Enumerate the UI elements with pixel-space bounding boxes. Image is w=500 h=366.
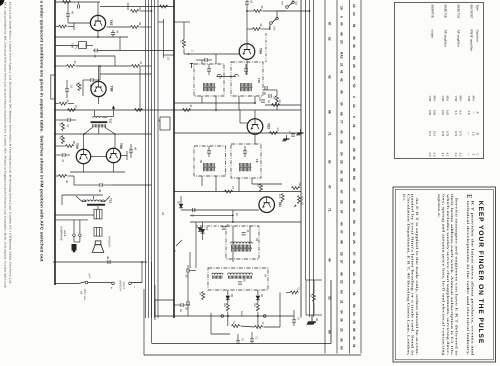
svg-text:92: 92	[328, 160, 332, 164]
resistor 72	[290, 291, 298, 294]
resistor 31c	[135, 109, 143, 112]
wire y90 right	[263, 89, 277, 91]
speaker driver block	[94, 228, 102, 237]
junction riser y66	[99, 65, 101, 67]
wire T89 base stub	[121, 155, 127, 157]
svg-text:14: 14	[352, 12, 356, 16]
svg-text:EC1.: EC1.	[402, 194, 406, 201]
wire T84 emitter	[246, 59, 248, 64]
svg-text:72: 72	[297, 287, 300, 290]
wire y222	[190, 221, 301, 223]
svg-text:12: 12	[352, 4, 356, 8]
svg-text:48: 48	[98, 189, 102, 193]
capacitor 47b	[62, 153, 64, 157]
wire y105	[265, 104, 301, 106]
resistor 30	[254, 10, 262, 13]
svg-text:19: 19	[205, 227, 209, 231]
svg-text:65: 65	[340, 140, 344, 144]
capacitor 45	[94, 49, 96, 53]
wire T84 collector	[246, 9, 248, 44]
svg-text:50: 50	[340, 346, 344, 350]
capacitor 59	[268, 94, 270, 98]
svg-text:11: 11	[246, 230, 250, 233]
svg-text:24: 24	[276, 128, 280, 132]
IF right border	[300, 0, 302, 318]
svg-text:(A/sia) Ltd; South Africa: Cen: (A/sia) Ltd; South Africa: Central News …	[9, 2, 12, 284]
junction frame y134	[54, 133, 56, 135]
wire T87 base	[68, 22, 90, 24]
svg-text:4.2: 4.2	[441, 153, 445, 157]
svg-text:59: 59	[267, 100, 270, 103]
svg-text:75: 75	[241, 338, 244, 341]
svg-text:42: 42	[340, 78, 344, 82]
junction rail y133	[300, 132, 302, 134]
capacitor 58a	[204, 58, 206, 62]
capacitor 16	[65, 88, 69, 90]
svg-text:24: 24	[352, 232, 356, 236]
svg-text:34: 34	[310, 294, 313, 297]
svg-text:46: 46	[352, 44, 356, 48]
bus line 5	[157, 0, 159, 318]
wire right block	[305, 280, 307, 315]
diode 20	[179, 204, 183, 208]
svg-text:71: 71	[328, 132, 332, 136]
svg-text:91: 91	[352, 24, 356, 28]
svg-text:—: —	[467, 152, 471, 157]
IFT T8 trimmer	[243, 150, 247, 152]
resistor 34r	[313, 294, 316, 302]
svg-text:38: 38	[340, 178, 344, 182]
svg-text:52: 52	[352, 84, 356, 88]
svg-text:71: 71	[255, 336, 258, 339]
svg-text:BSB175E: BSB175E	[444, 5, 448, 18]
svg-text:0.6: 0.6	[454, 111, 458, 115]
svg-text:40: 40	[71, 11, 75, 15]
IFT box T9	[194, 64, 224, 96]
wire y191	[174, 191, 301, 193]
col line 2	[336, 0, 338, 354]
capacitor 48b	[99, 183, 101, 187]
svg-text:63: 63	[340, 290, 344, 294]
IFT box T10	[231, 62, 263, 96]
wire S1a	[263, 10, 286, 12]
earphone plug	[72, 244, 77, 251]
svg-text:46: 46	[134, 147, 138, 151]
svg-text:—: —	[467, 131, 471, 136]
IFT T9 core	[203, 86, 216, 88]
svg-text:58: 58	[352, 176, 356, 180]
IFT T7 winding lower	[203, 168, 205, 171]
capacitor 43	[90, 78, 92, 82]
wire jack leads	[74, 241, 80, 243]
svg-text:tory, spring and autumn price: tory, spring and autumn price lists, hi-…	[442, 194, 446, 356]
svg-text:26: 26	[157, 119, 160, 122]
col line 1	[324, 0, 326, 354]
svg-text:31: 31	[340, 300, 344, 304]
svg-text:VHF: VHF	[441, 96, 445, 102]
capacitor 75	[236, 340, 240, 342]
svg-text:EARPHONE: EARPHONE	[60, 227, 63, 241]
svg-text:43: 43	[352, 136, 356, 140]
svg-text:34: 34	[199, 292, 202, 295]
paper corner mark	[0, 0, 5, 6]
ground near rail	[286, 135, 288, 139]
IFT T10 core	[240, 86, 253, 88]
wire T11 leads	[84, 127, 92, 134]
junction T87 emitter	[97, 36, 99, 38]
IFT T8 core	[239, 166, 252, 168]
svg-text:0.79: 0.79	[441, 131, 445, 137]
svg-text:FM IF amplifier: FM IF amplifier	[470, 30, 474, 53]
diode 65	[226, 296, 230, 300]
resistor 28b	[292, 187, 300, 190]
svg-text:6: 6	[340, 16, 344, 18]
svg-text:51: 51	[59, 123, 63, 127]
svg-text:26: 26	[352, 64, 356, 68]
svg-text:18C: 18C	[258, 97, 261, 102]
capacitor 71	[250, 338, 254, 340]
svg-text:S1d: S1d	[295, 1, 298, 6]
junction T84 collector	[246, 10, 248, 12]
wire x120 link	[119, 37, 121, 51]
transistor T89	[106, 148, 120, 162]
svg-text:JACK: JACK	[63, 230, 66, 237]
svg-text:0.06: 0.06	[428, 110, 432, 116]
svg-text:42: 42	[328, 75, 332, 79]
svg-text:−: −	[133, 286, 137, 288]
svg-text:24: 24	[340, 152, 344, 156]
wire T84 base	[184, 53, 240, 55]
wire T87 emitter	[97, 31, 99, 37]
IFT T8 winding upper	[239, 163, 241, 166]
svg-text:T89: T89	[119, 143, 123, 149]
wire y195	[62, 194, 103, 196]
svg-text:36: 36	[352, 36, 356, 40]
resistor 34L	[202, 292, 205, 300]
driver transformer T11 secondary	[92, 124, 94, 127]
battery plus terminal	[112, 282, 115, 285]
svg-text:46: 46	[340, 272, 344, 276]
wire 37 to bus	[140, 10, 152, 12]
transistor T83	[247, 119, 263, 135]
svg-text:0.65: 0.65	[441, 110, 445, 116]
col line 4	[360, 0, 362, 354]
svg-text:62: 62	[328, 37, 332, 41]
junction frame/emitter wire	[54, 36, 56, 38]
wire emitters	[83, 164, 85, 172]
svg-text:3.2: 3.2	[454, 153, 458, 157]
wire feeder	[163, 19, 165, 58]
wire y22	[174, 21, 190, 23]
driver transformer T11 core	[91, 121, 108, 123]
supply rail A	[305, 0, 307, 280]
svg-text:39: 39	[138, 22, 142, 26]
svg-text:BSB475E: BSB475E	[431, 5, 435, 18]
speaker symbol	[95, 241, 101, 245]
junction IF border y110	[173, 109, 175, 111]
wire: top stub	[127, 3, 129, 11]
junction frame y66	[54, 65, 56, 67]
svg-text:21: 21	[167, 57, 171, 61]
svg-text:12: 12	[288, 131, 291, 134]
capacitor 56	[180, 303, 182, 307]
svg-text:44: 44	[352, 208, 356, 212]
svg-text:95: 95	[352, 328, 356, 332]
svg-text:2: 2	[352, 96, 356, 98]
wire jack link	[55, 214, 94, 216]
tuning gang link	[221, 315, 224, 318]
resistor 76	[232, 325, 240, 328]
svg-text:31: 31	[189, 105, 193, 109]
svg-text:70: 70	[297, 317, 300, 320]
svg-text:55: 55	[199, 160, 203, 164]
svg-text:AF amplifier: AF amplifier	[457, 30, 461, 48]
supply rail B	[309, 0, 311, 317]
svg-text:25: 25	[352, 240, 356, 244]
svg-text:31: 31	[352, 344, 356, 348]
svg-text:16: 16	[70, 85, 74, 89]
IFT box T8	[231, 144, 261, 178]
junction bus y11	[151, 10, 153, 12]
wire T9 feeds	[201, 60, 203, 64]
svg-text:97: 97	[340, 210, 344, 214]
tuning gang linkage	[200, 225, 226, 227]
wire T83 emitter	[254, 134, 256, 144]
svg-text:54: 54	[352, 312, 356, 316]
resistor 48a	[59, 102, 67, 105]
svg-text:60: 60	[259, 24, 263, 28]
wire det network	[210, 313, 212, 334]
wire y56	[55, 55, 115, 57]
junction T83 top	[254, 102, 256, 104]
svg-text:BSCK987: BSCK987	[470, 5, 474, 19]
IFT T6 winding row2	[231, 247, 252, 249]
svg-text:22: 22	[352, 272, 356, 276]
aerial coil large	[228, 273, 253, 275]
capacitor 46a	[129, 149, 133, 151]
svg-text:57: 57	[352, 252, 356, 256]
svg-text:63: 63	[352, 76, 356, 80]
schematic frame left	[151, 262, 153, 344]
junction x140 y110	[139, 109, 141, 111]
coupling loop	[217, 76, 237, 78]
svg-text:87: 87	[328, 22, 332, 26]
svg-text:45: 45	[75, 83, 79, 87]
svg-text:78: 78	[352, 320, 356, 324]
resistor 51	[62, 123, 65, 131]
wire y262 rail	[53, 261, 147, 263]
svg-text:26: 26	[257, 184, 261, 188]
jack contact block	[94, 209, 102, 219]
svg-text:43: 43	[340, 130, 344, 134]
svg-text:2: 2	[191, 50, 195, 52]
wire T6 leads	[232, 226, 234, 245]
transistor T87	[90, 15, 105, 30]
wire battery to bus	[131, 282, 142, 284]
capacitor in aerial box	[238, 281, 242, 283]
IFT T9 winding upper	[203, 83, 205, 86]
svg-text:49: 49	[106, 256, 110, 260]
svg-text:40: 40	[340, 22, 344, 26]
IFT T7 core	[203, 166, 216, 168]
svg-text:6.0: 6.0	[428, 153, 432, 157]
wire T10 feeds	[246, 64, 248, 75]
svg-text:41: 41	[352, 124, 356, 128]
svg-text:41: 41	[139, 61, 143, 65]
svg-text:37: 37	[138, 7, 142, 11]
svg-text:35: 35	[185, 307, 188, 310]
bus line 3	[151, 0, 153, 318]
svg-text:43: 43	[59, 136, 63, 140]
resistor 42	[67, 65, 75, 68]
IFT box T6	[226, 226, 259, 259]
svg-text:77: 77	[340, 120, 344, 124]
junction det y316 b	[257, 315, 259, 317]
node 10	[232, 215, 234, 217]
svg-text:34: 34	[340, 310, 344, 314]
svg-text:46: 46	[352, 260, 356, 264]
svg-text:C/W: C/W	[273, 26, 276, 31]
svg-text:65: 65	[243, 279, 246, 282]
svg-text:42: 42	[73, 61, 77, 65]
resistor 40	[59, 25, 67, 28]
svg-text:41: 41	[340, 70, 344, 74]
svg-text:57: 57	[340, 190, 344, 194]
svg-text:S1b: S1b	[268, 26, 271, 31]
transistor T88	[91, 81, 106, 96]
svg-text:19: 19	[340, 6, 344, 10]
svg-text:RA2: RA2	[340, 52, 344, 59]
svg-text:98: 98	[328, 110, 332, 114]
svg-text:T83: T83	[266, 123, 270, 129]
svg-text:68: 68	[223, 304, 226, 307]
output transformer T12 windings	[82, 200, 104, 202]
svg-text:25: 25	[340, 160, 344, 164]
svg-text:+: +	[110, 287, 114, 289]
resistor 38	[160, 5, 168, 8]
resistor 39	[131, 26, 139, 29]
wire T88 collector	[98, 66, 100, 81]
wire: AF top rail b	[100, 6, 174, 8]
IF border left	[173, 0, 175, 318]
svg-text:63: 63	[352, 280, 356, 284]
svg-text:T84: T84	[258, 48, 262, 54]
capacitor 58	[264, 86, 266, 90]
svg-text:T81: T81	[278, 201, 282, 207]
svg-text:25: 25	[340, 252, 344, 256]
IF bottom wire	[155, 315, 294, 317]
wire right det	[279, 292, 281, 327]
svg-text:VHF: VHF	[428, 96, 432, 102]
ground mid rail	[300, 129, 302, 133]
svg-text:10C: 10C	[278, 194, 281, 199]
wire T87 collector	[97, 2, 99, 15]
outer border bottom	[144, 354, 361, 356]
svg-text:36: 36	[340, 338, 344, 342]
wire T81 base	[181, 209, 259, 211]
capacitor 11	[242, 232, 246, 234]
svg-text:48: 48	[340, 240, 344, 244]
svg-text:64: 64	[264, 274, 268, 278]
svg-text:74: 74	[261, 322, 264, 325]
capacitor 49	[107, 260, 109, 264]
transistor T84	[239, 44, 255, 60]
IFT T10 trimmer	[244, 68, 248, 70]
svg-text:45: 45	[340, 90, 344, 94]
svg-text:98: 98	[315, 318, 318, 321]
node 2	[188, 53, 190, 55]
wire S1b to rail	[276, 11, 278, 19]
capacitor 61	[245, 1, 249, 3]
svg-text:10: 10	[235, 213, 239, 217]
wire stub y55	[164, 54, 175, 56]
svg-text:33: 33	[340, 328, 344, 332]
wire between T90 T89	[91, 156, 107, 158]
resistor 28a	[276, 96, 279, 104]
svg-text:3.8: 3.8	[467, 111, 471, 115]
ground bold	[308, 321, 316, 323]
wire riser	[99, 66, 101, 74]
svg-text:T12: T12	[109, 198, 113, 204]
svg-text:KEEP YOUR FINGER ON THE PULSE: KEEP YOUR FINGER ON THE PULSE	[477, 201, 484, 344]
svg-text:63: 63	[195, 225, 199, 229]
svg-text:47: 47	[340, 230, 344, 234]
svg-text:47: 47	[66, 99, 70, 103]
wire y74 link	[100, 73, 152, 75]
svg-text:Circulation Department, E R: Circulation Department, E R T, 40 Bowlin…	[406, 194, 410, 356]
resistor 43b	[62, 136, 65, 144]
wire: AF top rail	[55, 1, 100, 3]
svg-text:56: 56	[352, 304, 356, 308]
resistor 26b	[260, 184, 263, 192]
svg-text:47: 47	[61, 159, 65, 163]
svg-text:71: 71	[328, 208, 332, 212]
svg-text:66: 66	[260, 294, 264, 298]
capacitor 41	[66, 13, 70, 15]
svg-text:31: 31	[74, 105, 78, 109]
supply rail C	[313, 0, 315, 317]
svg-text:WITH VOL: WITH VOL	[83, 289, 86, 301]
svg-text:20: 20	[177, 201, 181, 205]
resistor 41b	[132, 65, 140, 68]
wire y110 main	[174, 109, 301, 111]
IFT T7 trimmer	[207, 150, 211, 152]
IFT T7 winding upper	[203, 163, 205, 166]
svg-text:Function: Function	[476, 29, 480, 43]
switch S4	[85, 281, 88, 284]
svg-text:VHF: VHF	[467, 96, 471, 102]
wire x196 link	[195, 222, 197, 268]
IFT box T7	[194, 146, 226, 176]
thermistor TH1 box	[79, 42, 87, 49]
svg-text:S4: S4	[80, 291, 83, 295]
svg-text:supplements, etc.: supplements, etc.	[437, 194, 441, 218]
svg-text:47: 47	[66, 124, 70, 128]
wire T83 collector	[254, 110, 256, 119]
IFT T6 winding row1	[231, 242, 253, 244]
resistor 45v	[78, 83, 81, 91]
resistor 24b	[272, 104, 280, 107]
resistor 24	[270, 132, 278, 135]
svg-text:0.72: 0.72	[454, 131, 458, 137]
wire y133	[174, 132, 301, 134]
svg-text:technical developments in the: technical developments in the radio and …	[466, 201, 470, 356]
wire rail y110	[55, 109, 174, 111]
svg-text:20: 20	[340, 40, 344, 44]
resistor 31b	[183, 109, 191, 112]
resistor 60	[253, 28, 261, 31]
svg-text:25: 25	[340, 200, 344, 204]
